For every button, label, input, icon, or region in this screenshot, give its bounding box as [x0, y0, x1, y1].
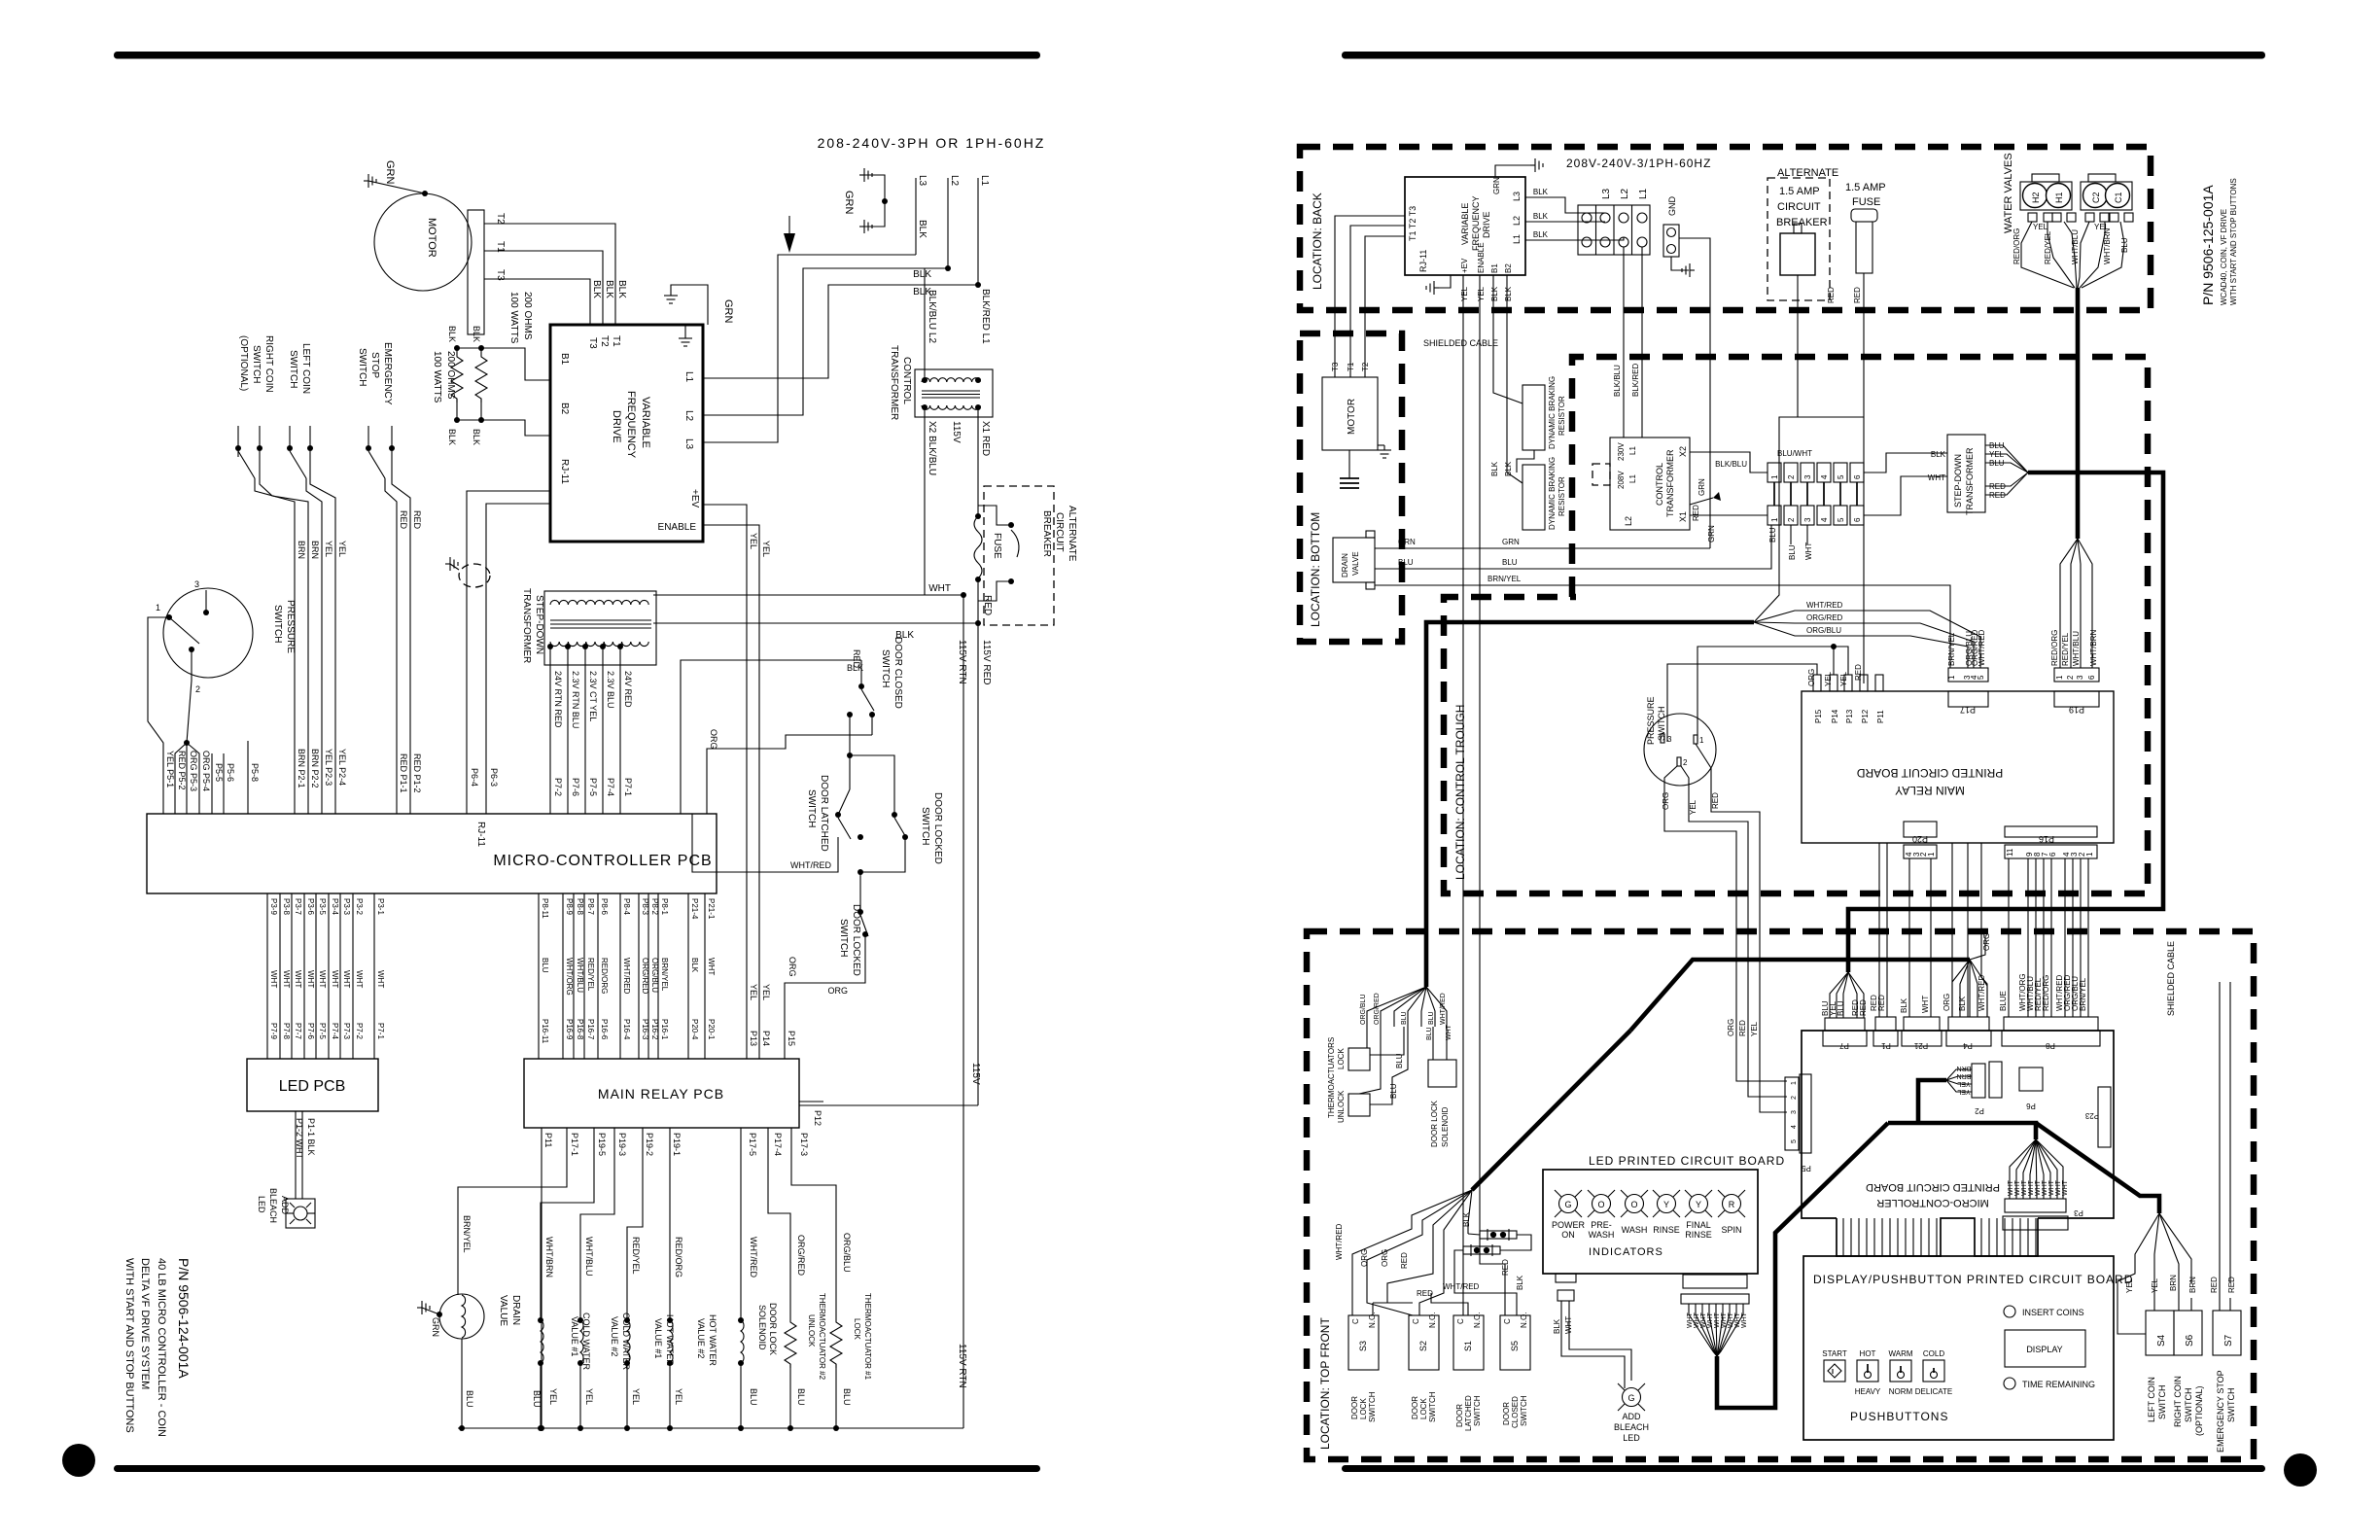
svg-text:DRIVE: DRIVE — [1482, 211, 1491, 238]
op VFD box U1 — [550, 325, 703, 542]
wires WHT/RED ORG/RED ORG/BLU to P17 — [1754, 611, 1980, 668]
svg-text:6: 6 — [1853, 474, 1862, 479]
svg-text:P8-2: P8-2 — [650, 898, 659, 915]
P6 connector — [2019, 1067, 2043, 1091]
svg-text:P15: P15 — [787, 1031, 796, 1046]
svg-text:6: 6 — [2087, 675, 2096, 680]
svg-text:1.5 AMP: 1.5 AMP — [1845, 182, 1886, 193]
svg-text:PUSHBUTTONS: PUSHBUTTONS — [1850, 1410, 1948, 1423]
svg-text:RED/YEL: RED/YEL — [586, 958, 595, 992]
svg-text:YEL: YEL — [1689, 799, 1697, 815]
svg-text:GRN: GRN — [843, 191, 855, 215]
svg-text:3: 3 — [1803, 474, 1812, 479]
svg-text:ORG: ORG — [1942, 994, 1951, 1011]
svg-text:BLU: BLU — [1401, 1011, 1408, 1025]
svg-text:UNLOCK: UNLOCK — [1337, 1090, 1346, 1123]
svg-text:ORG: ORG — [1727, 1019, 1735, 1036]
svg-text:BRN/YEL: BRN/YEL — [660, 958, 669, 992]
svg-text:ORG: ORG — [1982, 933, 1991, 951]
svg-text:SOLENOID: SOLENOID — [1441, 1106, 1450, 1147]
svg-text:RED/YEL: RED/YEL — [631, 1237, 641, 1275]
svg-text:CONTROL: CONTROL — [1655, 463, 1664, 506]
svg-text:LEFT COIN: LEFT COIN — [2147, 1377, 2156, 1422]
top bar right page — [1342, 52, 2265, 59]
svg-text:LOCK: LOCK — [1359, 1398, 1368, 1419]
svg-text:WHT: WHT — [2028, 1179, 2035, 1196]
dynamic braking resistor 1 — [1522, 385, 1545, 450]
svg-text:L3: L3 — [1512, 192, 1522, 201]
micro-controller PCB U2 — [147, 814, 717, 893]
step-down transformer right page — [1947, 435, 1985, 512]
svg-text:4: 4 — [1820, 474, 1829, 479]
svg-text:P3-7: P3-7 — [294, 898, 302, 915]
svg-text:SWITCH: SWITCH — [1428, 1391, 1437, 1422]
svg-text:RED/ORG: RED/ORG — [2012, 228, 2021, 264]
svg-text:GRN: GRN — [1492, 177, 1501, 194]
svg-text:VALVE: VALVE — [1351, 551, 1360, 576]
svg-text:STOP: STOP — [369, 352, 380, 378]
svg-text:DYNAMIC BRAKING: DYNAMIC BRAKING — [1548, 376, 1557, 449]
svg-text:X1 RED: X1 RED — [980, 421, 991, 456]
svg-text:C: C — [1412, 1318, 1420, 1324]
svg-text:S1: S1 — [1463, 1341, 1473, 1351]
svg-text:P8-6: P8-6 — [600, 898, 609, 915]
svg-text:P15: P15 — [1814, 709, 1823, 723]
svg-text:BLU: BLU — [1395, 1053, 1404, 1068]
wire P17-1 to drain valve — [458, 1128, 567, 1295]
svg-text:T2: T2 — [599, 335, 610, 347]
svg-text:115V RED: 115V RED — [981, 640, 992, 685]
S2 door lock switch — [1409, 1315, 1439, 1370]
svg-text:P7-4: P7-4 — [331, 1023, 339, 1039]
svg-text:RED: RED — [1400, 1252, 1409, 1269]
svg-text:P7: P7 — [1839, 1041, 1849, 1050]
P20 connector — [1904, 822, 1937, 837]
svg-text:3: 3 — [2076, 675, 2084, 680]
svg-text:WHT/BLU: WHT/BLU — [576, 958, 584, 993]
svg-text:2.3V RTN BLU: 2.3V RTN BLU — [571, 671, 580, 728]
svg-text:P19-1: P19-1 — [672, 1133, 682, 1156]
svg-text:P16-3: P16-3 — [641, 1019, 649, 1040]
svg-text:SWITCH: SWITCH — [251, 345, 262, 383]
svg-text:P16-8: P16-8 — [576, 1019, 584, 1040]
wires X2 X1 below transformer — [924, 407, 926, 595]
wires micro PCB to LED PCB — [267, 893, 374, 1059]
svg-text:P14: P14 — [761, 1031, 771, 1046]
wire 115V RTN vertical — [962, 595, 964, 1428]
svg-text:DOOR LOCKED: DOOR LOCKED — [932, 792, 943, 864]
svg-text:SWITCH: SWITCH — [2157, 1385, 2167, 1420]
svg-text:INSERT COINS: INSERT COINS — [2022, 1308, 2084, 1317]
svg-text:ON: ON — [1561, 1230, 1575, 1240]
svg-text:WHT: WHT — [294, 970, 302, 988]
svg-text:RESISTOR: RESISTOR — [1557, 396, 1566, 436]
svg-text:WHT: WHT — [1928, 473, 1945, 482]
svg-text:P20: P20 — [1912, 834, 1928, 844]
svg-text:WHT/BRN: WHT/BRN — [2103, 227, 2112, 264]
wire — [368, 181, 425, 193]
svg-text:BLK: BLK — [472, 326, 481, 342]
svg-text:SWITCH: SWITCH — [288, 350, 298, 388]
S4 S6 S7 coin/stop switches — [2117, 1213, 2159, 1334]
svg-text:WHT/RED: WHT/RED — [749, 1237, 758, 1277]
svg-text:S4: S4 — [2156, 1334, 2167, 1347]
bottom bar left page — [114, 1465, 1040, 1472]
wire L2 — [947, 178, 949, 268]
svg-text:POWER: POWER — [1552, 1220, 1586, 1230]
svg-text:B1: B1 — [559, 353, 570, 366]
svg-text:BLU: BLU — [842, 1388, 852, 1406]
svg-text:BLK: BLK — [616, 280, 627, 298]
svg-text:P3-3: P3-3 — [342, 898, 351, 915]
svg-text:RED: RED — [1501, 1259, 1510, 1276]
svg-text:RED: RED — [2210, 1277, 2219, 1293]
svg-text:BRN: BRN — [310, 541, 320, 559]
svg-text:3: 3 — [194, 579, 199, 589]
svg-text:PRE-: PRE- — [1591, 1220, 1612, 1230]
svg-text:BLK: BLK — [1504, 286, 1513, 301]
svg-text:24V RTN RED: 24V RTN RED — [553, 671, 563, 728]
svg-text:BLK/RED L1: BLK/RED L1 — [980, 289, 991, 344]
svg-text:TRANSFORMER: TRANSFORMER — [521, 588, 532, 663]
svg-text:WHT: WHT — [282, 970, 291, 988]
svg-text:5: 5 — [1977, 675, 1985, 680]
svg-text:RINSE: RINSE — [1685, 1230, 1712, 1240]
svg-text:1: 1 — [156, 603, 160, 612]
S5 door closed switch — [1500, 1315, 1530, 1370]
svg-text:HEAVY: HEAVY — [1855, 1387, 1881, 1396]
svg-text:S5: S5 — [1510, 1341, 1520, 1351]
svg-text:ORG P5-4: ORG P5-4 — [201, 751, 211, 791]
svg-text:200 OHMS: 200 OHMS — [445, 351, 456, 400]
svg-text:VALUE #2: VALUE #2 — [610, 1316, 619, 1356]
svg-text:DOOR: DOOR — [1502, 1402, 1511, 1425]
svg-text:GRN: GRN — [384, 160, 396, 185]
page dot bottom-left — [62, 1444, 95, 1477]
svg-text:P1: P1 — [1881, 1041, 1891, 1050]
svg-text:P7-5: P7-5 — [588, 778, 598, 796]
top pins P15-P11 — [1813, 675, 1883, 691]
svg-text:RESISTOR: RESISTOR — [1557, 476, 1566, 516]
svg-text:BLK: BLK — [1958, 996, 1967, 1011]
svg-text:STEP-DOWN: STEP-DOWN — [1953, 454, 1963, 507]
svg-text:ORG: ORG — [709, 729, 718, 750]
svg-text:BLEACH: BLEACH — [1614, 1422, 1649, 1432]
svg-text:BLK: BLK — [1900, 997, 1908, 1013]
svg-text:ORG/RED: ORG/RED — [641, 958, 649, 995]
svg-text:RED/YEL: RED/YEL — [2044, 230, 2052, 264]
svg-text:P3-2: P3-2 — [355, 898, 364, 915]
svg-text:GRN: GRN — [1697, 478, 1706, 496]
svg-text:2: 2 — [1683, 758, 1688, 767]
svg-text:L1: L1 — [1628, 474, 1637, 483]
svg-text:RED P5-2: RED P5-2 — [177, 751, 187, 790]
RED wires to S7 — [2219, 982, 2221, 1311]
svg-text:MICRO-CONTROLLER: MICRO-CONTROLLER — [1876, 1197, 1989, 1208]
terminal block TB1 — [1578, 205, 1650, 255]
svg-text:1: 1 — [1770, 517, 1779, 522]
svg-text:FUSE: FUSE — [1852, 196, 1880, 208]
svg-text:BRN P2-1: BRN P2-1 — [297, 749, 306, 788]
main relay PCB right page — [1802, 691, 2114, 843]
svg-text:H2: H2 — [2031, 192, 2041, 203]
svg-text:P12: P12 — [813, 1110, 822, 1126]
svg-text:P/N 9506-125-001A: P/N 9506-125-001A — [2200, 185, 2216, 305]
svg-text:DOOR LOCKED: DOOR LOCKED — [851, 904, 861, 976]
svg-text:BRN: BRN — [297, 541, 306, 559]
svg-text:WHT/BLU: WHT/BLU — [2072, 631, 2081, 666]
svg-text:T1 T2 T3: T1 T2 T3 — [1408, 206, 1417, 241]
wire to door locked switch 2 — [860, 856, 905, 872]
inline fuse 1 — [1480, 1229, 1517, 1241]
svg-text:COLD: COLD — [1923, 1349, 1944, 1358]
svg-text:(OPTIONAL): (OPTIONAL) — [238, 335, 249, 391]
svg-text:WHT: WHT — [1694, 1312, 1700, 1328]
page dot bottom-right — [2284, 1453, 2317, 1487]
svg-text:ORG: ORG — [1662, 792, 1670, 810]
svg-text:BLK/BLU: BLK/BLU — [1715, 460, 1747, 469]
svg-text:SHIELDED CABLE: SHIELDED CABLE — [2166, 941, 2176, 1016]
inline fuse 2 — [1463, 1244, 1500, 1256]
svg-text:RED/ORG: RED/ORG — [2050, 630, 2059, 666]
svg-text:SWITCH: SWITCH — [806, 789, 817, 827]
svg-text:P8-4: P8-4 — [622, 898, 631, 915]
svg-text:NORM: NORM — [1889, 1387, 1913, 1396]
secondary wires to PCB — [549, 647, 551, 814]
svg-text:DRAIN: DRAIN — [1341, 553, 1349, 577]
svg-text:BLK: BLK — [1462, 1211, 1471, 1227]
svg-text:230V: 230V — [1617, 442, 1626, 461]
svg-text:FREQUENCY: FREQUENCY — [625, 391, 637, 459]
svg-text:208V: 208V — [1617, 471, 1626, 489]
svg-text:BRN: BRN — [2169, 1275, 2178, 1291]
svg-text:THERMOACTUATOR #2: THERMOACTUATOR #2 — [818, 1293, 826, 1381]
svg-text:BLK: BLK — [447, 326, 457, 342]
svg-text:WHT/ORG: WHT/ORG — [565, 958, 574, 996]
GRN wire from GND — [1679, 238, 1710, 548]
svg-text:SHIELDED CABLE: SHIELDED CABLE — [1423, 338, 1498, 348]
svg-text:P13: P13 — [749, 1031, 758, 1046]
svg-text:SWITCH: SWITCH — [880, 649, 891, 687]
svg-text:WHT: WHT — [2062, 1179, 2069, 1196]
svg-text:SWITCH: SWITCH — [1473, 1395, 1482, 1426]
svg-text:GRN: GRN — [1707, 525, 1716, 542]
svg-text:RED: RED — [1877, 995, 1886, 1011]
svg-text:SOLENOID: SOLENOID — [757, 1305, 767, 1350]
svg-text:P7-9: P7-9 — [269, 1023, 278, 1039]
thick harness from water valves — [2076, 288, 2081, 539]
svg-text:FINAL: FINAL — [1686, 1220, 1711, 1230]
svg-text:WHT/RED: WHT/RED — [1335, 1223, 1344, 1260]
svg-text:BLU: BLU — [1989, 441, 2005, 450]
svg-text:WHT/BRN: WHT/BRN — [2089, 629, 2098, 666]
svg-text:RED: RED — [2227, 1277, 2236, 1293]
ground GRN at motor — [364, 174, 376, 188]
svg-text:MAIN RELAY PCB: MAIN RELAY PCB — [598, 1086, 724, 1102]
svg-text:LOCATION: BACK: LOCATION: BACK — [1311, 192, 1324, 290]
bottom 115V RTN bus — [458, 1427, 963, 1429]
location bottom dashed box — [1300, 333, 1402, 642]
svg-text:S2: S2 — [1418, 1341, 1428, 1351]
svg-text:RINSE: RINSE — [1653, 1225, 1680, 1235]
svg-text:GRN: GRN — [1502, 538, 1520, 546]
door lock solenoid — [740, 1128, 742, 1320]
svg-text:VALUE #2: VALUE #2 — [696, 1318, 706, 1358]
svg-text:HOT WATER: HOT WATER — [708, 1314, 717, 1366]
svg-text:BLK/RED: BLK/RED — [1631, 364, 1640, 397]
bottom bar right page — [1342, 1465, 2265, 1472]
svg-text:T1: T1 — [611, 335, 621, 347]
svg-text:P17: P17 — [1960, 705, 1976, 715]
svg-text:DISPLAY/PUSHBUTTON PRINTED C: DISPLAY/PUSHBUTTON PRINTED CIRCUIT BOARD — [1813, 1273, 2133, 1286]
svg-text:P5-6: P5-6 — [226, 763, 235, 782]
svg-text:SWITCH: SWITCH — [1520, 1395, 1528, 1426]
fuse F1 — [974, 516, 982, 578]
svg-text:P19-2: P19-2 — [645, 1133, 654, 1156]
svg-text:5: 5 — [1837, 474, 1845, 479]
location control trough dashed box — [1444, 357, 2148, 893]
svg-text:L1: L1 — [979, 175, 990, 187]
valve fan wires to harness — [2021, 222, 2074, 288]
svg-text:WHT: WHT — [2048, 1179, 2055, 1196]
svg-text:BREAKER: BREAKER — [1041, 510, 1052, 557]
svg-text:YEL P5-1: YEL P5-1 — [165, 751, 175, 787]
thick harness fan into P19 — [2060, 539, 2078, 668]
svg-text:THERMOACTUATORS: THERMOACTUATORS — [1327, 1037, 1336, 1118]
svg-text:6: 6 — [2048, 852, 2057, 857]
svg-text:RJ-11: RJ-11 — [559, 459, 570, 484]
svg-text:HOT: HOT — [1860, 1349, 1876, 1358]
wire BLK P4-3 — [681, 660, 861, 814]
svg-text:P7-3: P7-3 — [342, 1023, 351, 1039]
svg-text:P4: P4 — [1963, 1041, 1973, 1050]
svg-text:BRN/YEL: BRN/YEL — [2079, 977, 2087, 1011]
svg-text:BLK: BLK — [1553, 1318, 1561, 1334]
svg-text:6: 6 — [1853, 517, 1862, 522]
micro-controller PCB right page — [1802, 1031, 2114, 1218]
svg-text:BLU: BLU — [1837, 1000, 1845, 1016]
svg-text:WITH START AND STOP BUTTONS: WITH START AND STOP BUTTONS — [123, 1258, 135, 1433]
svg-text:P7-7: P7-7 — [294, 1023, 302, 1039]
svg-text:BLU: BLU — [1389, 1083, 1398, 1099]
add bleach LED right page — [1618, 1383, 1645, 1411]
alternate circuit breaker dashed box — [984, 486, 1054, 625]
svg-text:YEL: YEL — [1957, 1088, 1970, 1095]
svg-text:P19: P19 — [2069, 705, 2084, 715]
svg-text:115V: 115V — [970, 1063, 981, 1085]
svg-text:LED PRINTED CIRCUIT BOARD: LED PRINTED CIRCUIT BOARD — [1589, 1154, 1785, 1168]
svg-text:DOOR: DOOR — [1350, 1396, 1359, 1419]
comb connectors to display board — [1843, 1218, 2036, 1256]
svg-text:1: 1 — [2085, 852, 2094, 857]
svg-text:YEL: YEL — [324, 541, 333, 557]
svg-text:RED: RED — [1692, 505, 1700, 521]
svg-text:RED: RED — [1711, 792, 1720, 809]
svg-text:P16-11: P16-11 — [541, 1019, 549, 1044]
svg-text:START: START — [1822, 1349, 1847, 1358]
svg-text:BRN P2-2: BRN P2-2 — [310, 749, 320, 788]
thick diagonal harness to switches — [1717, 1123, 1888, 1408]
svg-text:RED/ORG: RED/ORG — [674, 1237, 683, 1277]
svg-text:P13: P13 — [1845, 709, 1854, 723]
svg-text:P7-2: P7-2 — [355, 1023, 364, 1039]
harness fan to lock hardware — [1367, 987, 1426, 1027]
braking resistor R2 — [475, 353, 487, 402]
svg-text:RED: RED — [412, 510, 422, 530]
svg-text:ORG/BLU: ORG/BLU — [1965, 631, 1974, 666]
ground at VFD bottom left — [1439, 275, 1451, 288]
svg-text:N.O.: N.O. — [1428, 1312, 1437, 1328]
svg-text:C1: C1 — [2114, 192, 2123, 203]
svg-text:ORG: ORG — [787, 957, 797, 977]
svg-text:BLK: BLK — [1490, 286, 1499, 301]
svg-text:1: 1 — [1770, 474, 1779, 479]
svg-text:GRN: GRN — [431, 1317, 440, 1337]
drain valve right page — [1333, 538, 1375, 582]
svg-text:RED: RED — [1989, 491, 2006, 500]
svg-text:O: O — [1630, 1200, 1637, 1209]
svg-text:P7-1: P7-1 — [376, 1023, 385, 1039]
svg-text:RIGHT COIN: RIGHT COIN — [263, 335, 274, 393]
svg-text:P19-5: P19-5 — [597, 1133, 607, 1156]
svg-text:WHT/RED: WHT/RED — [1977, 974, 1986, 1011]
svg-text:LED: LED — [1623, 1433, 1640, 1443]
svg-text:1: 1 — [2055, 675, 2064, 680]
svg-text:CONTROL: CONTROL — [901, 357, 912, 404]
svg-text:ORG: ORG — [1381, 1249, 1389, 1267]
switch fan from thick — [1352, 1190, 1472, 1303]
svg-text:2: 2 — [195, 684, 200, 694]
svg-text:Y: Y — [1696, 1200, 1701, 1209]
svg-text:DYNAMIC BRAKING: DYNAMIC BRAKING — [1548, 457, 1557, 530]
svg-text:WHT/RED: WHT/RED — [1440, 993, 1447, 1025]
svg-text:P7-1: P7-1 — [623, 778, 633, 796]
svg-text:P3-9: P3-9 — [269, 898, 278, 915]
svg-text:BLU: BLU — [796, 1388, 806, 1406]
svg-text:P14: P14 — [1831, 709, 1839, 723]
svg-text:B2: B2 — [559, 402, 570, 415]
svg-text:TRANSFORMER: TRANSFORMER — [1965, 447, 1975, 515]
svg-text:G: G — [1564, 1200, 1571, 1209]
svg-text:3: 3 — [1667, 735, 1672, 744]
svg-text:ORG/BLU: ORG/BLU — [842, 1233, 852, 1273]
svg-text:X1: X1 — [1678, 511, 1688, 522]
svg-text:+EV: +EV — [1460, 258, 1469, 273]
svg-text:ORG: ORG — [1360, 1249, 1369, 1267]
svg-text:YEL P2-3: YEL P2-3 — [324, 749, 333, 786]
BLU wires from thermoactuators — [1370, 1027, 1404, 1055]
svg-text:WHT: WHT — [2042, 1179, 2048, 1196]
wires resistors to B1/B2 — [457, 348, 550, 380]
svg-text:2.3V BLU: 2.3V BLU — [606, 671, 615, 709]
svg-text:PRESSURE: PRESSURE — [1646, 696, 1656, 745]
svg-text:1: 1 — [1699, 736, 1704, 745]
svg-text:RED: RED — [1738, 1020, 1747, 1036]
svg-text:YEL: YEL — [1824, 671, 1833, 686]
svg-text:L2: L2 — [683, 410, 694, 422]
svg-text:ALTERNATE: ALTERNATE — [1067, 506, 1077, 562]
svg-text:DELTA VF DRIVE SYSTEM: DELTA VF DRIVE SYSTEM — [139, 1258, 151, 1389]
svg-text:YEL: YEL — [337, 541, 347, 557]
VFD right page — [1405, 177, 1525, 275]
svg-text:CLOSED: CLOSED — [1511, 1396, 1520, 1428]
svg-text:X2 BLK/BLU: X2 BLK/BLU — [927, 421, 937, 475]
YEL wires from VFD +EV/ENABLE down — [1462, 275, 1464, 1315]
wires YEL YEL from VFD to P13 P14 — [703, 505, 747, 1059]
svg-text:LED: LED — [257, 1196, 266, 1213]
svg-text:RED: RED — [1853, 287, 1862, 303]
svg-text:WASH: WASH — [1622, 1225, 1648, 1235]
